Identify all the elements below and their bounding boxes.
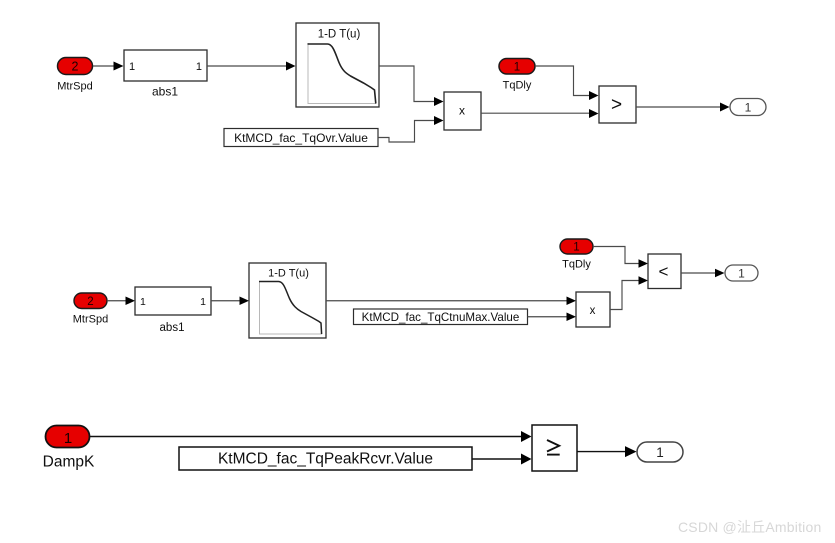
wire TqDly to relational < (top input)	[593, 247, 648, 268]
wire >= to outport 1 (row3)	[577, 446, 637, 457]
svg-text:2: 2	[87, 296, 93, 308]
svg-text:KtMCD_fac_TqCtnuMax.Value: KtMCD_fac_TqCtnuMax.Value	[362, 311, 520, 324]
svg-text:MtrSpd: MtrSpd	[57, 81, 92, 93]
outport 1 (row3)	[637, 442, 683, 462]
svg-text:x: x	[590, 305, 596, 317]
wire KtMCD_fac_TqOvr to product1 (bottom input)	[378, 116, 444, 142]
svg-text:1: 1	[745, 100, 752, 114]
svg-text:abs1: abs1	[160, 322, 185, 334]
wire > to outport 1	[636, 103, 730, 112]
wire lookup1 to product1 (top input)	[379, 66, 444, 106]
svg-text:1: 1	[200, 296, 206, 308]
svg-text:1-D T(u): 1-D T(u)	[268, 268, 309, 280]
svg-text:KtMCD_fac_TqPeakRcvr.Value: KtMCD_fac_TqPeakRcvr.Value	[218, 451, 433, 468]
svg-text:1: 1	[140, 296, 146, 308]
wire product2 to relational < (bottom input)	[610, 276, 648, 309]
svg-text:1: 1	[738, 266, 745, 280]
wire MtrSpd to abs1 (row2)	[107, 297, 135, 306]
lookup table 1-D T(u) (row2)	[249, 263, 326, 338]
constant KtMCD_fac_TqPeakRcvr.Value	[179, 447, 472, 470]
product block x (row2)	[576, 292, 610, 327]
svg-text:1: 1	[514, 62, 520, 74]
constant KtMCD_fac_TqCtnuMax.Value	[354, 309, 528, 325]
svg-text:1: 1	[129, 61, 135, 73]
svg-text:KtMCD_fac_TqOvr.Value: KtMCD_fac_TqOvr.Value	[234, 131, 368, 145]
lookup table 1-D T(u)	[296, 23, 379, 107]
wire MtrSpd to abs1	[93, 62, 124, 71]
svg-text:DampK: DampK	[43, 454, 95, 471]
wire KtMCD_fac_TqPeakRcvr to >= (bottom input)	[472, 454, 532, 465]
wire product1 to relational > (bottom input)	[481, 109, 599, 118]
wire TqDly to relational > (top input)	[535, 66, 599, 100]
svg-text:>: >	[611, 95, 622, 116]
relational operator <	[648, 254, 681, 289]
svg-text:CSDN @沚丘Ambition: CSDN @沚丘Ambition	[678, 519, 821, 535]
svg-text:2: 2	[72, 60, 79, 74]
svg-text:MtrSpd: MtrSpd	[73, 314, 108, 326]
abs1 block (row2)	[135, 287, 211, 334]
svg-text:1: 1	[64, 430, 72, 447]
svg-text:x: x	[459, 103, 465, 117]
svg-text:TqDly: TqDly	[562, 259, 591, 271]
wire abs1 to lookup2	[211, 297, 249, 306]
relational operator >	[599, 86, 636, 123]
wire lookup2 to product2 (top input)	[326, 297, 576, 306]
svg-text:TqDly: TqDly	[503, 80, 532, 92]
svg-text:1-D T(u): 1-D T(u)	[318, 29, 361, 41]
product block x (row1)	[444, 92, 481, 130]
svg-text:1: 1	[196, 61, 202, 73]
inport 2 MtrSpd (row2)	[73, 293, 108, 326]
wire < to outport 1 (row2)	[681, 269, 725, 278]
svg-text:abs1: abs1	[152, 85, 178, 99]
inport 2 MtrSpd	[57, 58, 92, 93]
inport 1 TqDly (row2)	[560, 239, 593, 271]
outport 1 (row1)	[730, 99, 766, 116]
constant KtMCD_fac_TqOvr.Value	[224, 129, 378, 147]
svg-text:1: 1	[573, 242, 579, 254]
inport 1 DampK	[43, 426, 95, 471]
relational operator >=	[532, 425, 577, 471]
wire KtMCD_fac_TqCtnuMax to product2 (bottom input)	[528, 313, 577, 322]
wire abs1 to lookup1	[207, 62, 296, 71]
wire DampK to >= (top input)	[90, 431, 532, 442]
svg-text:1: 1	[656, 445, 664, 460]
svg-text:<: <	[659, 262, 669, 281]
outport 1 (row2)	[725, 265, 758, 281]
abs1 block	[124, 50, 207, 99]
inport 1 TqDly (row1)	[499, 59, 535, 92]
